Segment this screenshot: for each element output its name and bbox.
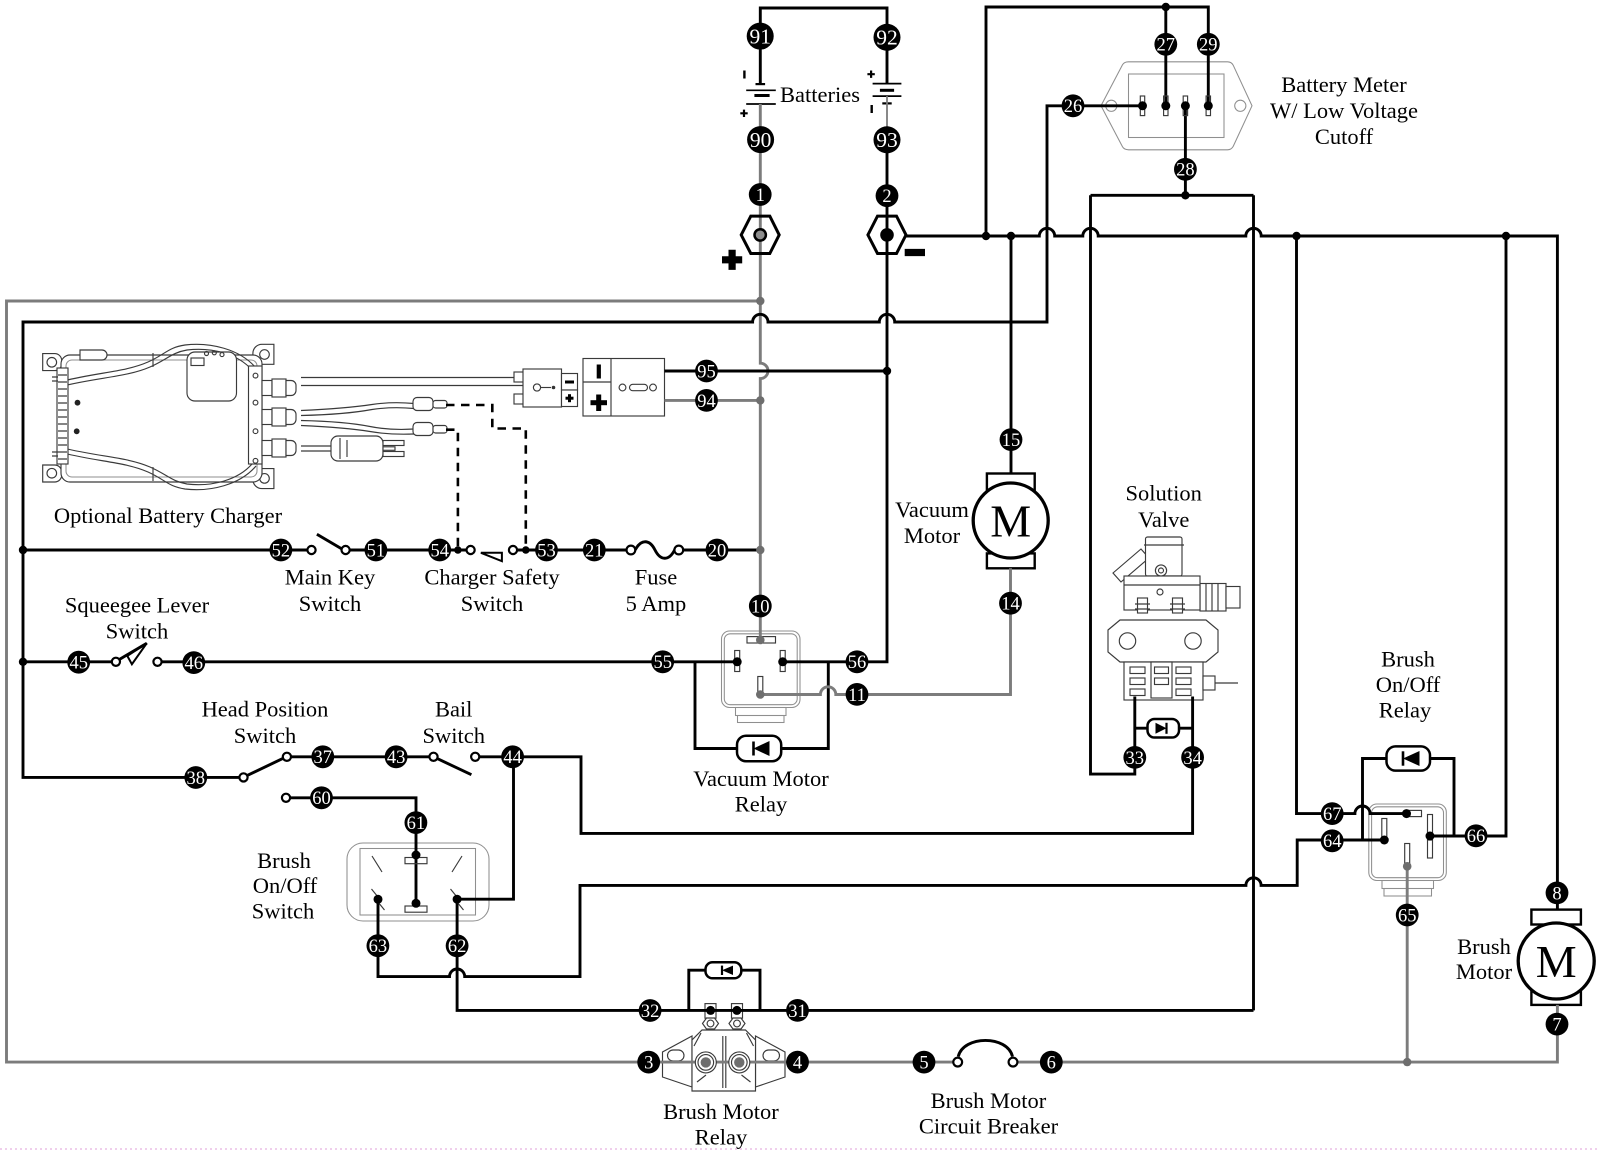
wire battery B2 negative lead to 93 [886,96,888,130]
node 51 [365,539,388,562]
svg-text:15: 15 [1002,431,1021,451]
wire brush switch right pin via 62 down to brush motor relay row 32-31 [457,899,1253,1010]
node 5 [913,1051,936,1074]
brush on/off switch pins and marks [372,851,464,913]
wire 51 54 segment to charger safety switch [350,549,467,552]
svg-text:65: 65 [1398,906,1417,926]
node 61 [405,811,428,834]
wire charger output 95 to negative rail [665,370,888,373]
svg-text:Head Position: Head Position [202,697,329,722]
svg-text:Switch: Switch [234,723,297,748]
node 10 [749,595,772,618]
battery B2 plus mark [867,71,874,78]
node 62 [446,934,469,957]
svg-text:56: 56 [848,653,867,673]
svg-text:Valve: Valve [1138,507,1189,532]
wire bus drop to 67 and brush relay top pin, hop over diode leg [1297,236,1407,814]
battery B1 minus mark [743,71,745,79]
node 53 [535,539,558,562]
battery B1 plus mark [740,110,747,117]
svg-text:6: 6 [1047,1054,1056,1074]
gray junction dots on positive rail [756,297,1411,1067]
circuit breaker CB1 arc [958,1040,1012,1056]
node 31 [786,999,809,1022]
svg-text:94: 94 [697,392,716,412]
node 45 [67,651,90,674]
svg-text:53: 53 [537,541,556,561]
node 92 [874,24,901,51]
node 55 [651,650,674,673]
motor M1 vacuum motor frame [973,474,1048,569]
diode D3 loop around brush motor relay coil [689,970,760,1010]
node 2 [876,184,899,207]
svg-text:95: 95 [697,362,716,382]
svg-text:Switch: Switch [106,619,169,644]
node 90 [747,126,774,153]
svg-text:46: 46 [185,654,204,674]
relay K3 stud terminals [695,1052,750,1073]
svg-text:51: 51 [367,541,386,561]
svg-text:92: 92 [876,26,898,50]
battery meter body [1101,62,1252,150]
svg-text:38: 38 [187,769,206,789]
svg-text:Relay: Relay [735,792,788,817]
wire left leg of crossbar down to solution valve 33 [1091,195,1135,774]
node 37 [311,745,334,768]
node 20 [706,539,729,562]
svg-text:Vacuum: Vacuum [895,497,969,522]
wire brush relay right pin via 66 up to bus [1430,236,1506,836]
svg-text:Brush Motor: Brush Motor [663,1099,779,1124]
node 34 [1181,746,1204,769]
svg-text:63: 63 [369,937,388,957]
svg-text:37: 37 [314,748,333,768]
svg-text:Bail: Bail [435,697,473,722]
svg-text:62: 62 [448,937,467,957]
wire 60 to 61 to brush switch top pin [290,798,416,855]
diode D3 symbol [706,962,742,978]
svg-text:Brush: Brush [257,848,311,873]
svg-text:Brush: Brush [1381,647,1435,672]
wire battery meter pin 26 to left rail, across y=322 with hops, down to head position switch row [23,106,1143,778]
svg-text:Switch: Switch [422,723,485,748]
node 94 [695,389,718,412]
svg-text:Batteries: Batteries [780,82,860,107]
svg-text:44: 44 [503,748,522,768]
wire 44 over to solution valve 34: right, down, across y=833, up through 34 [479,697,1192,834]
svg-text:11: 11 [848,686,866,706]
svg-text:4: 4 [793,1054,802,1074]
brush on/off relay pins [1380,809,1435,871]
node 28 [1174,158,1197,181]
svg-text:Battery Meter: Battery Meter [1281,72,1407,97]
wire bus to battery meter top feed [986,7,1208,236]
node 65 [1396,904,1419,927]
svg-text:21: 21 [585,541,604,561]
node 46 [182,651,205,674]
switch S5 head position switch blade [247,758,283,775]
battery B2 plates [873,84,902,104]
svg-text:Switch: Switch [461,591,524,616]
node 67 [1321,802,1344,825]
node 7 [1546,1013,1569,1036]
svg-text:27: 27 [1157,36,1176,56]
svg-text:Optional Battery Charger: Optional Battery Charger [54,503,283,528]
svg-text:Main Key: Main Key [285,565,376,590]
motor M2 brush motor frame [1518,910,1594,1005]
svg-text:33: 33 [1126,749,1145,769]
svg-text:Charger Safety: Charger Safety [424,565,560,590]
svg-text:Solution: Solution [1126,481,1202,506]
svg-text:52: 52 [272,541,291,561]
minus sign at connector 2 [905,249,925,256]
svg-text:Motor: Motor [1456,959,1513,984]
optional battery charger illustration [43,344,296,489]
node 56 [846,650,869,673]
brush motor relay coil post terminals [706,1006,741,1015]
connector 1 positive hex terminal [741,216,779,253]
wire right leg of crossbar down to brush motor relay row 31 [1252,195,1255,1010]
wire battery meter pin 28 drop to crossbar [1184,106,1187,196]
wire 93 to connector 2 [886,150,889,255]
wire dashed charger interlock to 54 junction [446,430,458,550]
svg-text:W/ Low Voltage: W/ Low Voltage [1270,98,1418,123]
node 64 [1321,829,1344,852]
svg-text:Brush: Brush [1457,934,1511,959]
wire 46 to 55 to vacuum relay left pin [162,660,738,663]
svg-text:54: 54 [430,541,449,561]
wire fuse to 20 to positive rail [683,549,760,552]
svg-text:61: 61 [407,814,426,834]
svg-text:26: 26 [1064,97,1083,117]
node 14 [999,592,1022,615]
svg-text:91: 91 [749,25,771,49]
svg-text:1: 1 [756,186,765,206]
wire charger DC output cable pair [301,378,530,386]
svg-text:Brush Motor: Brush Motor [931,1088,1047,1113]
node 43 [385,745,408,768]
wire battery meter pin 27 drop [1164,7,1167,106]
svg-text:Relay: Relay [695,1125,748,1150]
diode D2 loop around brush on/off relay [1363,759,1455,841]
svg-text:Squeegee Lever: Squeegee Lever [65,593,210,618]
svg-text:34: 34 [1183,749,1202,769]
svg-text:29: 29 [1199,36,1218,56]
wire brush relay output pin via 65 down to gray bus [1406,866,1409,1062]
svg-text:28: 28 [1176,161,1195,181]
switch S3 squeegee lever switch blade [120,643,147,664]
diode D1 symbol [737,736,781,761]
wire vacuum relay output pin via 11 and 14 to vacuum motor, hop over diode leg [760,568,1010,694]
wire negative bus from connector 2 across top, hops at 1047 1090.5 1253.5, down right side to node 8 [905,228,1557,909]
node 93 [874,126,901,153]
node 3 [637,1051,660,1074]
wire brush switch centre pins link [415,855,418,903]
node 27 [1154,33,1177,56]
svg-text:45: 45 [69,654,88,674]
wire negative rail: connector 2 down to 56 and relay right pin [783,254,887,662]
relay K2 brush on/off relay body [1369,804,1447,896]
wire positive feed: node at top of rail left and down left edge to bottom gray bus [7,301,954,1062]
connector J2 machine-side charger receptacle [583,359,665,417]
node 91 [747,23,774,50]
svg-text:M: M [990,496,1031,547]
node 95 [695,360,718,383]
wire main key switch row from left rail through 52 [23,549,307,552]
wire positive rail: connector 1 down to vacuum relay pin 10, hop over wire 95 [760,254,768,641]
fuse F1 5 amp element [635,542,674,559]
connector J1 charger-side plug [514,369,578,407]
wire bus to vacuum motor top via 15 [1010,236,1013,474]
battery B1 plates [746,84,776,104]
open contact circles [112,546,1018,1067]
node 32 [639,999,662,1022]
wire dashed charger interlock to 53 junction [446,405,526,550]
node 38 [184,766,207,789]
vacuum relay pins [733,636,788,699]
svg-text:Circuit Breaker: Circuit Breaker [919,1114,1059,1139]
node 6 [1040,1051,1063,1074]
wire charger output 94 to positive rail [665,399,761,402]
node 15 [1000,428,1023,451]
svg-text:10: 10 [751,597,770,617]
svg-text:On/Off: On/Off [253,873,318,898]
svg-text:90: 90 [750,128,772,152]
wire charger AC cord and plug [301,436,404,461]
node 66 [1465,824,1488,847]
svg-text:31: 31 [788,1002,807,1022]
wire 53 21 segment to fuse [517,549,627,552]
svg-text:93: 93 [876,128,898,152]
node 26 [1062,94,1085,117]
diode D4 solution valve symbol [1148,719,1180,738]
svg-text:Cutoff: Cutoff [1315,124,1374,149]
node 63 [367,934,390,957]
node 54 [428,539,451,562]
connector 2 negative hex terminal [868,216,906,253]
wire squeegee row from left rail to switch [23,660,112,663]
wire 44 branch down to brush switch right pin [457,757,513,899]
svg-text:3: 3 [644,1054,653,1074]
valve V1 solution valve illustration [1108,537,1240,700]
switch S2 charger safety switch blade [481,553,502,561]
node 44 [501,745,524,768]
relay K3 brush motor relay body [663,1004,786,1091]
node 60 [310,786,333,809]
svg-text:7: 7 [1552,1016,1561,1036]
svg-text:60: 60 [312,789,331,809]
node 8 [1546,882,1569,905]
wire crossbar under battery meter [1091,194,1254,197]
svg-text:Fuse: Fuse [635,565,678,590]
svg-text:On/Off: On/Off [1376,672,1441,697]
diode D1 loop around vacuum relay [695,662,828,749]
svg-text:2: 2 [882,187,891,207]
svg-text:Switch: Switch [299,591,362,616]
svg-text:5: 5 [919,1054,928,1074]
plus sign at connector 1 [722,250,742,270]
relay K1 vacuum motor relay body [722,631,801,723]
svg-text:43: 43 [387,748,406,768]
switch S6 bail switch blade [437,759,471,775]
wire bottom gray bus after circuit breaker to brush motor via 7 [1017,1005,1557,1062]
node 11 [846,683,869,706]
svg-text:20: 20 [708,541,727,561]
svg-text:Motor: Motor [904,523,961,548]
wire battery top jumper 91 to 92 [760,8,887,84]
node 29 [1197,33,1220,56]
node 21 [583,539,606,562]
svg-text:Switch: Switch [252,899,315,924]
svg-text:66: 66 [1467,827,1486,847]
wire battery B1 positive lead through 90 and 1 to connector [759,104,762,255]
switch S1 main key switch blade [317,534,343,549]
wire 37 43 segment [291,755,429,758]
diode D2 symbol [1387,746,1431,770]
svg-text:32: 32 [641,1002,660,1022]
battery meter pins [1138,96,1213,116]
switch S4 brush on/off switch body [347,843,489,921]
node 1 [749,183,772,206]
battery B2 minus mark [871,105,873,113]
svg-text:14: 14 [1001,595,1020,615]
node 52 [270,539,293,562]
wire solution valve coil link [1135,727,1193,730]
svg-text:Vacuum Motor: Vacuum Motor [693,766,829,791]
svg-text:64: 64 [1323,832,1342,852]
svg-text:67: 67 [1323,805,1342,825]
svg-text:Relay: Relay [1379,698,1432,723]
svg-text:8: 8 [1552,884,1561,904]
svg-text:M: M [1536,936,1577,987]
svg-text:55: 55 [653,653,672,673]
wire charger sense lead pair to spade terminals [301,398,447,436]
node 33 [1123,746,1146,769]
wire brush switch left pin via 63 across to 64 and brush relay left pin, hops at 457 and 1253.5 [378,840,1384,977]
svg-text:5 Amp: 5 Amp [626,591,687,616]
node 4 [786,1051,809,1074]
page edge mark [0,1148,1600,1150]
